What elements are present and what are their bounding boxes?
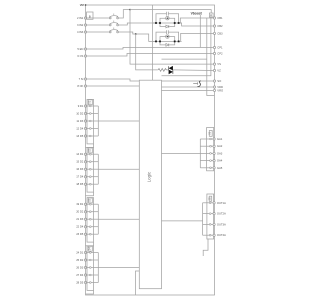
svg-text:5 EN: 5 EN	[77, 47, 83, 51]
svg-text:VZ: VZ	[217, 69, 221, 73]
wire charge pump 1 rail down to pin 26	[180, 23, 215, 26]
svg-text:VRG: VRG	[217, 88, 223, 92]
svg-text:23 D5: 23 D5	[76, 232, 84, 236]
svg-text:GA4: GA4	[217, 159, 223, 163]
pin IN5	[76, 134, 86, 138]
pin IN1	[77, 16, 87, 20]
svg-text:12 D4: 12 D4	[76, 127, 84, 131]
pin IN3	[76, 119, 86, 123]
output cell wire GA3	[200, 152, 214, 154]
pin IN13	[76, 217, 86, 221]
input cell wire row 3	[86, 267, 99, 269]
pin GA2	[213, 144, 223, 148]
node junction dot row3	[135, 33, 137, 35]
svg-text:Vboost: Vboost	[191, 11, 203, 15]
input cell wire row 5	[86, 233, 99, 235]
pin IN3	[77, 30, 87, 34]
pin VZ	[213, 69, 221, 73]
switch S3 contact symbol	[109, 28, 118, 33]
charge pump unit 2 (C2 cap, osc, D2 diode, pads CP2A/CP2B)	[153, 30, 182, 45]
input cell wire row 1	[86, 252, 99, 254]
input group block G2	[87, 148, 94, 193]
group G3 wire to Logic	[98, 218, 139, 220]
pin IN8	[76, 167, 86, 171]
input cell wire row 5	[86, 135, 99, 137]
output cell wire GA4	[200, 160, 214, 162]
input group block G3	[87, 198, 94, 243]
svg-text:CB1: CB1	[217, 16, 223, 20]
input cell wire row 2	[86, 161, 99, 163]
pin IN7	[76, 160, 86, 164]
group G3 ground hook	[86, 242, 94, 246]
svg-text:17 D4: 17 D4	[76, 175, 84, 179]
pin OUT4A	[213, 233, 226, 237]
svg-text:24 D1: 24 D1	[76, 251, 84, 255]
svg-text:8 CK: 8 CK	[77, 84, 83, 88]
svg-text:GA5: GA5	[217, 166, 223, 170]
svg-text:OUT1A: OUT1A	[217, 201, 226, 205]
output cell wire OUT4A	[203, 234, 215, 236]
wire switch S1 to node VBB rail	[119, 10, 130, 18]
svg-text:GA2: GA2	[217, 144, 223, 148]
pin GA5	[213, 166, 223, 170]
svg-text:28 D5: 28 D5	[76, 281, 84, 285]
wire Logic to output block H2	[162, 220, 203, 222]
pin IN18	[76, 266, 86, 270]
svg-text:3 IN2: 3 IN2	[77, 23, 84, 27]
input cell wire row 3	[86, 168, 99, 170]
pin GA4	[213, 159, 223, 163]
svg-text:GA3: GA3	[217, 151, 223, 155]
svg-text:4 IN3: 4 IN3	[77, 30, 84, 34]
svg-text:20 D2: 20 D2	[76, 210, 84, 214]
pin CB1	[213, 16, 223, 20]
pin CP1	[213, 46, 223, 50]
input cell wire row 3	[86, 120, 99, 122]
pin CS	[77, 54, 86, 58]
node VBB junction dot	[85, 4, 87, 6]
switch S2 contact symbol	[109, 21, 118, 26]
pin IN12	[76, 210, 86, 214]
pin IN14	[76, 225, 86, 229]
group G2 ground hook	[86, 192, 94, 196]
wire IN3 to switch S3	[86, 31, 109, 33]
group G1 wire to Logic	[98, 120, 139, 122]
svg-text:OUT2A: OUT2A	[217, 212, 226, 216]
pin IN2	[77, 23, 87, 27]
svg-text:CP1: CP1	[217, 46, 223, 50]
svg-text:CB2: CB2	[217, 24, 223, 28]
block label box B (input switch section)	[87, 12, 93, 19]
svg-text:S3: S3	[88, 198, 91, 202]
input cell wire row 4	[86, 128, 99, 130]
group G4 bus	[97, 253, 99, 283]
pin CB3	[213, 31, 223, 35]
pin OUT1A	[213, 201, 226, 205]
output cell wire GA5	[200, 167, 214, 169]
wire Logic to output block H1	[162, 152, 201, 154]
svg-text:18 D5: 18 D5	[76, 182, 84, 186]
pin VRG	[213, 88, 223, 92]
input cell wire row 2	[86, 113, 99, 115]
pin VDD	[213, 85, 223, 89]
pin IN4	[76, 127, 86, 131]
pin IN15	[76, 232, 86, 236]
group G2 wire to Logic	[98, 168, 139, 170]
svg-text:6 CS: 6 CS	[77, 54, 83, 58]
svg-text:CP2: CP2	[217, 52, 223, 56]
svg-text:26 D3: 26 D3	[76, 266, 84, 270]
svg-text:S1: S1	[88, 100, 91, 104]
output cell wire GA2	[200, 145, 214, 147]
input cell wire row 1	[86, 153, 99, 155]
group G1 bus	[97, 106, 99, 136]
wire charge pump 2 output up to pin 33	[181, 33, 215, 41]
input cell wire row 1	[86, 105, 99, 107]
pin OUT3A	[213, 222, 226, 226]
input cell wire row 3	[86, 218, 99, 220]
pin EN	[77, 47, 86, 51]
wire VBB rail to regulator box	[130, 10, 211, 13]
pin IN10	[76, 182, 86, 186]
node junction dot on VBB rail	[129, 9, 131, 11]
wire Logic to VCP rail	[162, 58, 207, 60]
output cell wire GA1	[200, 138, 214, 140]
pin SO	[213, 79, 221, 83]
svg-text:10 D2: 10 D2	[76, 112, 84, 116]
svg-text:OUT3A: OUT3A	[217, 222, 226, 226]
wire SDI to Logic	[86, 79, 140, 81]
svg-text:7 SI: 7 SI	[79, 77, 84, 81]
wire DIS across to VCP2 pin	[86, 54, 215, 57]
svg-text:11 D3: 11 D3	[76, 119, 83, 123]
wire regulator rail down to Logic	[162, 17, 211, 76]
pin IN20	[76, 281, 86, 285]
pin IN17	[76, 258, 86, 262]
svg-text:14 D1: 14 D1	[76, 152, 84, 156]
wire vertical VCP rail down	[207, 18, 215, 96]
pin IN2	[76, 112, 86, 116]
node	[152, 47, 154, 49]
group G2 bus	[97, 154, 99, 184]
wire	[166, 69, 168, 71]
output cell wire OUT1A	[203, 202, 215, 204]
pin IN11	[76, 202, 86, 206]
pin IN6	[76, 152, 86, 156]
svg-text:OUT4A: OUT4A	[217, 233, 226, 237]
input cell wire row 1	[86, 203, 99, 205]
output driver block H2	[207, 194, 214, 239]
wire SCK to Logic	[86, 85, 140, 87]
block H1 bus	[199, 139, 201, 168]
wire switch S2 to charge pump CP1	[119, 23, 155, 25]
input cell wire row 2	[86, 259, 99, 261]
wire Logic to VDD pin	[162, 86, 215, 88]
wire IN1 to switch S1	[86, 17, 109, 19]
pin GA3	[213, 151, 223, 155]
pin CK	[77, 84, 86, 88]
resistor R1	[158, 69, 166, 72]
svg-text:CB3: CB3	[217, 31, 223, 35]
pin VS	[213, 62, 221, 66]
svg-text:VM: VM	[80, 3, 85, 7]
wire vertical Vboost node down to CP line	[199, 15, 201, 47]
pin CP2	[213, 52, 223, 56]
svg-text:VDD: VDD	[217, 85, 223, 89]
output driver block H1	[207, 128, 214, 171]
svg-text:15 D2: 15 D2	[76, 160, 84, 164]
svg-text:S2: S2	[88, 148, 91, 152]
wire Logic to VREG pin	[162, 89, 215, 91]
svg-text:S4: S4	[88, 247, 91, 251]
zener diode Z1 (dual clamp)	[169, 66, 173, 71]
wire switch S3 to charge pump CP2	[119, 32, 155, 41]
svg-text:GA1: GA1	[217, 137, 223, 141]
svg-text:2 IN1: 2 IN1	[77, 16, 84, 20]
pin CB2	[213, 24, 223, 28]
svg-text:S1: S1	[208, 131, 212, 135]
svg-text:19 D1: 19 D1	[76, 202, 84, 206]
svg-text:16 D3: 16 D3	[76, 167, 84, 171]
output cell wire OUT3A	[203, 223, 215, 225]
wire IN2 to switch S2	[86, 24, 109, 26]
input cell wire row 2	[86, 211, 99, 213]
switch S1 contact symbol	[109, 14, 118, 19]
pin IN19	[76, 273, 86, 277]
current sense element I1	[193, 82, 197, 85]
group G4 wire to Logic	[98, 267, 139, 269]
svg-text:9 D1: 9 D1	[78, 104, 84, 108]
wire zener to OUT pin	[173, 69, 214, 72]
input cell wire row 4	[86, 176, 99, 178]
input cell wire row 4	[86, 274, 99, 276]
block H2 bottom hook	[203, 239, 208, 256]
svg-text:Logic: Logic	[146, 171, 151, 182]
pin GA1	[213, 137, 223, 141]
pin IN1	[78, 104, 87, 108]
input cell wire row 4	[86, 226, 99, 228]
wire VBB rail down to OUT line C	[130, 10, 215, 65]
wire Logic to SDO pin	[162, 80, 215, 82]
input cell wire row 5	[86, 183, 99, 185]
IC outline border	[86, 5, 215, 295]
block H2 bus	[202, 203, 204, 235]
input cell wire row 5	[86, 282, 99, 284]
wire ENA across to VCP1 pin	[86, 48, 215, 50]
regulator box R	[209, 13, 213, 17]
charge pump unit 1 (C1 cap, osc, D1 diode, pads CP1A/CP1B)	[153, 12, 182, 27]
svg-text:25 D2: 25 D2	[76, 258, 84, 262]
svg-text:27 D4: 27 D4	[76, 273, 84, 277]
svg-text:SO: SO	[217, 79, 221, 83]
wire node row3 down to clamp line D	[136, 34, 158, 70]
wire top border down to Logic block top	[152, 5, 154, 80]
output cell wire OUT2A	[203, 213, 215, 215]
pin IN9	[76, 175, 86, 179]
pin IN16	[76, 251, 86, 255]
svg-text:VS: VS	[217, 62, 221, 66]
svg-text:R: R	[210, 14, 212, 18]
wire Logic ground stub	[136, 271, 140, 295]
input group block G1	[87, 99, 94, 143]
input group block G4	[87, 246, 94, 291]
svg-text:21 D3: 21 D3	[76, 217, 84, 221]
logic block U1	[139, 80, 161, 289]
group G4 ground hook	[86, 290, 94, 294]
svg-text:13 D5: 13 D5	[76, 134, 84, 138]
group G3 bus	[97, 204, 99, 234]
pin OUT2A	[213, 212, 226, 216]
pin SI	[79, 77, 87, 81]
svg-text:22 D4: 22 D4	[76, 225, 84, 229]
wire charge pump 1 output up to pin 18	[180, 18, 214, 23]
group G1 ground hook	[86, 144, 94, 148]
